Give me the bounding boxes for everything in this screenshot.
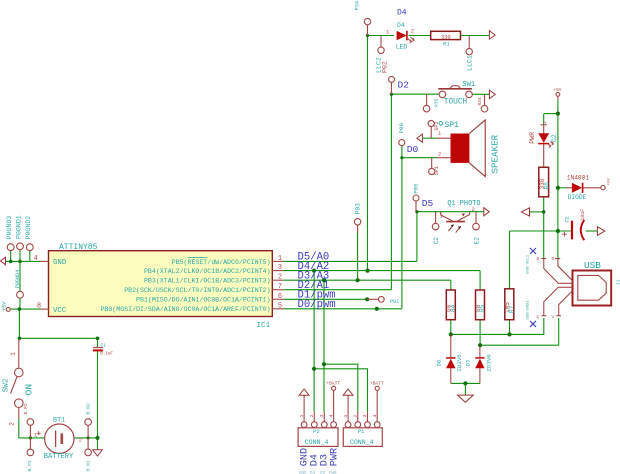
svg-text:5: 5 [278, 302, 282, 310]
svg-text:SP2: SP2 [434, 121, 440, 130]
svg-text:C2: C2 [564, 216, 570, 222]
svg-text:R6: R6 [543, 182, 550, 190]
svg-text:SW1: SW1 [462, 81, 475, 89]
svg-text:BT1: BT1 [53, 416, 65, 424]
svg-text:3: 3 [319, 415, 325, 418]
svg-text:SP1: SP1 [434, 166, 440, 175]
svg-text:ATTINY85: ATTINY85 [59, 243, 98, 252]
svg-text:B.N2: B.N2 [86, 403, 92, 414]
svg-text:D0/pwm: D0/pwm [298, 299, 336, 311]
svg-text:7: 7 [278, 283, 282, 291]
svg-text:2: 2 [438, 151, 441, 158]
svg-text:10uF: 10uF [580, 209, 586, 221]
svg-text:P0GND3: P0GND3 [6, 216, 13, 240]
svg-text:P01: P01 [390, 299, 399, 305]
svg-text:DIODE: DIODE [568, 194, 587, 201]
svg-text:USB: USB [584, 260, 601, 271]
svg-text:ON: ON [24, 384, 35, 396]
svg-text:4: 4 [328, 415, 334, 418]
svg-text:P34: P34 [355, 1, 361, 10]
svg-text:4: 4 [372, 415, 378, 418]
svg-text:PB1(MISO/DO/AIN1/OC0B/OC1A/PCI: PB1(MISO/DO/AIN1/OC0B/OC1A/PCINT1) [136, 297, 271, 304]
svg-text:LED: LED [396, 43, 408, 50]
svg-text:E2: E2 [473, 237, 480, 245]
svg-text:1: 1 [542, 121, 548, 124]
svg-text:B.P2: B.P2 [23, 403, 29, 414]
svg-text:ZD3V6: ZD3V6 [456, 354, 463, 372]
svg-text:P05: P05 [412, 183, 419, 194]
svg-text:D-: D- [537, 257, 542, 262]
svg-text:P0GND2: P0GND2 [25, 216, 32, 240]
svg-text:D4: D4 [397, 9, 407, 18]
svg-text:PB2(SCK/USCK/SCL/T0/INT0/ADC1/: PB2(SCK/USCK/SCL/T0/INT0/ADC1/PCINT2) [124, 287, 270, 294]
svg-text:R7: R7 [508, 305, 515, 313]
svg-text:1: 1 [34, 432, 37, 438]
svg-text:P2: P2 [313, 428, 320, 435]
svg-text:VCC: VCC [53, 307, 67, 315]
svg-text:D6: D6 [436, 360, 442, 366]
svg-text:PWR: PWR [529, 132, 536, 144]
svg-text:R4: R4 [450, 304, 457, 312]
svg-text:P0GND4: P0GND4 [15, 270, 21, 289]
svg-text:1: 1 [343, 415, 349, 418]
svg-text:Q1 PHOTO: Q1 PHOTO [447, 200, 480, 208]
svg-text:TOUCH: TOUCH [444, 98, 468, 106]
svg-text:D2: D2 [398, 80, 410, 91]
svg-text:B.N1: B.N1 [86, 460, 92, 471]
svg-text:USB-GND1: USB-GND1 [527, 300, 531, 320]
svg-text:SPEAKER: SPEAKER [490, 134, 501, 173]
svg-text:PB3(XTAL1/CLKI/OC1B/ADC3/PCINT: PB3(XTAL1/CLKI/OC1B/ADC3/PCINT3) [144, 278, 271, 285]
svg-text:GND: GND [53, 259, 67, 267]
svg-text:ZD3V6: ZD3V6 [486, 354, 493, 372]
svg-text:+5V: +5V [2, 301, 8, 311]
svg-text:D+: D+ [552, 257, 558, 262]
svg-text:PWR: PWR [330, 448, 341, 466]
svg-text:R35: R35 [433, 98, 439, 107]
svg-text:R1: R1 [443, 40, 450, 47]
svg-text:CONN_4: CONN_4 [305, 439, 329, 446]
svg-text:2: 2 [278, 274, 282, 282]
svg-text:+BATT: +BATT [326, 380, 340, 386]
svg-text:P0GND1: P0GND1 [15, 215, 22, 239]
svg-text:IC1: IC1 [257, 322, 271, 330]
svg-text:1N4001: 1N4001 [567, 174, 590, 181]
svg-text:2: 2 [79, 437, 82, 443]
svg-text:D5: D5 [422, 198, 434, 209]
svg-text:2: 2 [353, 415, 359, 418]
svg-text:R5: R5 [479, 304, 486, 312]
svg-text:4: 4 [33, 255, 37, 263]
svg-text:+9V: +9V [607, 177, 611, 185]
svg-text:D4: D4 [397, 22, 405, 29]
svg-text:2: 2 [411, 28, 414, 35]
svg-text:D3: D3 [466, 360, 472, 366]
svg-text:V: V [552, 316, 555, 321]
svg-text:1: 1 [10, 352, 17, 356]
svg-text:0.1uF: 0.1uF [100, 353, 113, 357]
svg-text:3: 3 [362, 415, 368, 418]
svg-text:2: 2 [9, 422, 16, 426]
svg-text:C1: C1 [101, 343, 107, 349]
svg-text:SP1: SP1 [445, 121, 460, 130]
svg-text:D0: D0 [407, 144, 419, 155]
svg-text:SW2: SW2 [3, 378, 11, 392]
svg-text:PB0(MOSI/DI/SDA/AIN0/OC0A/OC1A: PB0(MOSI/DI/SDA/AIN0/OC0A/OC1A/AREF/PCIN… [100, 306, 270, 313]
svg-text:+BATT: +BATT [370, 380, 384, 386]
svg-text:6: 6 [278, 293, 282, 301]
svg-text:2: 2 [309, 415, 315, 418]
svg-text:D2: D2 [551, 134, 558, 142]
svg-text:P02: P02 [381, 61, 388, 73]
svg-text:1: 1 [299, 415, 305, 418]
svg-text:USB-VCC1: USB-VCC1 [527, 254, 531, 274]
svg-text:2: 2 [472, 206, 475, 213]
svg-text:BATTERY: BATTERY [44, 453, 74, 461]
svg-text:CONN_4: CONN_4 [350, 439, 374, 446]
svg-text:1: 1 [278, 255, 282, 263]
svg-text:P03: P03 [355, 203, 362, 214]
svg-text:G: G [537, 316, 540, 321]
svg-text:8: 8 [37, 303, 41, 311]
svg-text:J1: J1 [615, 279, 620, 285]
svg-text:LLC1: LLC1 [466, 55, 473, 71]
svg-text:R24: R24 [477, 97, 483, 106]
svg-text:3: 3 [278, 264, 282, 272]
svg-text:+5V: +5V [554, 88, 562, 93]
svg-text:PB5(RESET/dW/ADC0/PCINT5): PB5(RESET/dW/ADC0/PCINT5) [172, 259, 271, 266]
svg-text:P1: P1 [358, 428, 365, 435]
svg-text:330: 330 [441, 34, 451, 40]
svg-text:B.P1: B.P1 [27, 460, 33, 471]
svg-text:PB4(XTAL2/CLKO/OC1B/ADC2/PCINT: PB4(XTAL2/CLKO/OC1B/ADC2/PCINT4) [144, 268, 271, 275]
svg-text:C2: C2 [433, 237, 440, 245]
svg-text:P00: P00 [398, 123, 405, 134]
